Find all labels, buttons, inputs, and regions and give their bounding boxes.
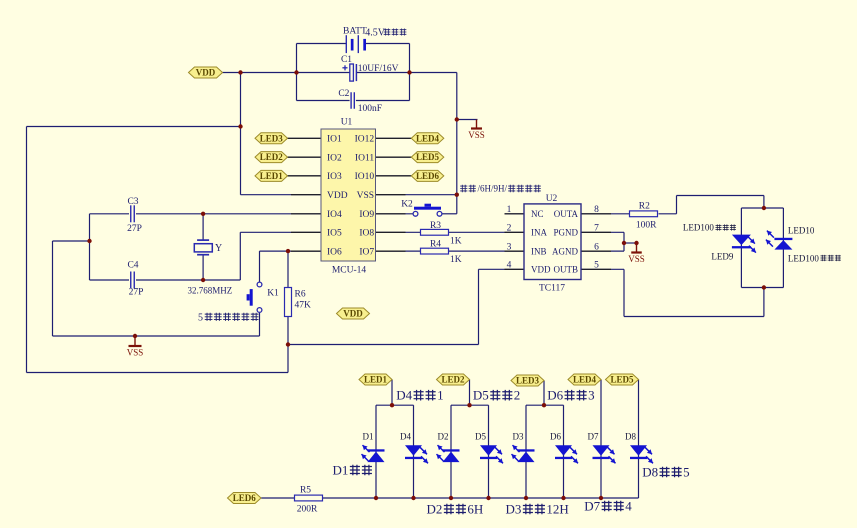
svg-text:R5: R5 [300, 486, 311, 496]
svg-text:AGND: AGND [552, 246, 578, 256]
svg-text:7: 7 [594, 224, 599, 234]
svg-text:IO5: IO5 [327, 229, 342, 239]
svg-text:IO11: IO11 [355, 153, 374, 163]
svg-text:5: 5 [594, 261, 599, 271]
svg-text:PGND: PGND [553, 228, 578, 238]
svg-text:D8: D8 [642, 465, 658, 480]
svg-text:Y: Y [215, 243, 222, 254]
svg-text:IO12: IO12 [355, 135, 375, 145]
svg-text:D2: D2 [438, 431, 449, 441]
svg-text:1K: 1K [450, 255, 462, 265]
svg-text:IO6: IO6 [327, 247, 342, 257]
svg-text:INB: INB [531, 246, 547, 256]
svg-text:6H: 6H [467, 502, 483, 517]
svg-text:VDD: VDD [531, 265, 551, 275]
svg-text:VSS: VSS [357, 191, 374, 201]
svg-text:K2: K2 [401, 200, 413, 210]
svg-text:TC117: TC117 [539, 284, 565, 294]
svg-text:U1: U1 [341, 118, 353, 128]
svg-text:IO3: IO3 [327, 172, 342, 182]
svg-text:D8: D8 [625, 431, 636, 441]
svg-text:1K: 1K [450, 237, 462, 247]
svg-text:100nF: 100nF [358, 104, 382, 114]
svg-text:VSS: VSS [628, 254, 645, 264]
svg-text:8: 8 [594, 205, 599, 215]
svg-text:C1: C1 [341, 55, 352, 65]
svg-text:47K: 47K [295, 301, 312, 311]
svg-text:VDD: VDD [327, 191, 348, 201]
svg-text:D7: D7 [584, 499, 600, 514]
svg-text:R3: R3 [430, 221, 441, 231]
svg-text:4: 4 [507, 261, 512, 271]
svg-text:D1: D1 [333, 463, 349, 478]
svg-text:LED4: LED4 [416, 133, 440, 143]
svg-text:R2: R2 [639, 202, 650, 212]
svg-text:LED10: LED10 [788, 225, 815, 235]
svg-text:D5: D5 [473, 388, 489, 403]
svg-text:D4: D4 [396, 388, 412, 403]
svg-text:IO9: IO9 [359, 210, 374, 220]
svg-text:VDD: VDD [343, 309, 363, 319]
svg-text:100R: 100R [636, 221, 657, 231]
svg-text:32.768MHZ: 32.768MHZ [188, 286, 233, 296]
svg-text:200R: 200R [297, 505, 318, 515]
svg-text:IO10: IO10 [355, 172, 375, 182]
svg-text:IO7: IO7 [359, 247, 374, 257]
svg-text:NC: NC [531, 209, 544, 219]
svg-text:D3: D3 [513, 431, 524, 441]
svg-text:C4: C4 [127, 261, 138, 271]
svg-text:D6: D6 [550, 431, 561, 441]
svg-text:C2: C2 [338, 89, 349, 99]
svg-text:1: 1 [437, 388, 444, 403]
svg-text:LED4: LED4 [573, 375, 597, 385]
svg-text:3: 3 [588, 388, 595, 403]
svg-text:VSS: VSS [127, 348, 144, 358]
svg-text:6: 6 [594, 243, 599, 253]
svg-text:U2: U2 [546, 194, 558, 204]
svg-text:INA: INA [531, 228, 547, 238]
svg-text:LED1: LED1 [364, 375, 388, 385]
svg-text:LED1: LED1 [260, 171, 284, 181]
svg-text:12H: 12H [546, 502, 568, 517]
svg-text:D4: D4 [400, 431, 411, 441]
svg-text:10UF/16V: 10UF/16V [358, 64, 399, 74]
svg-text:R4: R4 [430, 240, 441, 250]
svg-text:5: 5 [198, 312, 203, 323]
svg-text:VSS: VSS [468, 130, 485, 140]
svg-text:D5: D5 [475, 431, 486, 441]
svg-text:IO2: IO2 [327, 153, 342, 163]
svg-text:3: 3 [507, 243, 512, 253]
svg-text:2: 2 [507, 224, 512, 234]
svg-text:LED5: LED5 [416, 152, 440, 162]
svg-text:LED6: LED6 [233, 493, 257, 503]
svg-text:D3: D3 [506, 502, 522, 517]
svg-text:1: 1 [507, 205, 512, 215]
svg-text:LED3: LED3 [516, 376, 540, 386]
svg-text:C3: C3 [127, 197, 138, 207]
svg-text:D1: D1 [363, 431, 374, 441]
svg-text:LED2: LED2 [260, 152, 284, 162]
svg-text:/6H/9H/: /6H/9H/ [478, 184, 508, 194]
svg-text:D6: D6 [547, 388, 563, 403]
svg-text:K1: K1 [267, 289, 279, 299]
svg-text:OUTA: OUTA [554, 209, 579, 219]
svg-text:MCU-14: MCU-14 [332, 266, 367, 276]
svg-text:D2: D2 [427, 502, 443, 517]
svg-text:LED100: LED100 [683, 223, 714, 233]
svg-text:2: 2 [514, 388, 521, 403]
svg-text:LED6: LED6 [416, 171, 440, 181]
svg-text:5: 5 [683, 465, 690, 480]
svg-text:LED100: LED100 [788, 254, 819, 264]
svg-text:IO8: IO8 [359, 229, 374, 239]
svg-text:LED2: LED2 [441, 375, 465, 385]
svg-text:D7: D7 [588, 431, 599, 441]
svg-text:27P: 27P [129, 288, 144, 298]
svg-text:4: 4 [625, 499, 632, 514]
svg-text:BATT: BATT [343, 27, 367, 37]
svg-text:IO4: IO4 [327, 210, 342, 220]
svg-text:IO1: IO1 [327, 135, 342, 145]
svg-text:27P: 27P [127, 224, 142, 234]
svg-text:LED9: LED9 [711, 252, 733, 262]
svg-text:OUTB: OUTB [554, 265, 579, 275]
svg-text:R6: R6 [295, 290, 306, 300]
svg-text:VDD: VDD [196, 68, 216, 78]
svg-text:LED5: LED5 [610, 375, 634, 385]
svg-text:LED3: LED3 [260, 133, 284, 143]
svg-text:4.5V: 4.5V [365, 28, 386, 39]
